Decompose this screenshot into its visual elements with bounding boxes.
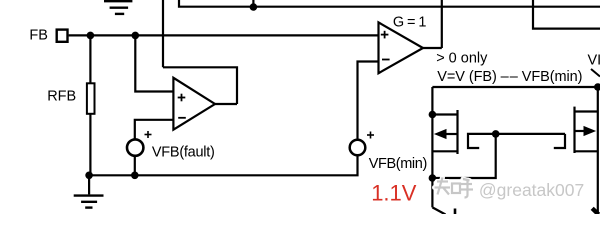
wire RFB top lead bbox=[89, 35, 91, 83]
wire stub to node at top bbox=[252, 0, 254, 7]
transistor Q1 gate bbox=[468, 134, 496, 148]
wire FB net horizontal bbox=[69, 34, 379, 36]
node Q1 drain dot bbox=[429, 111, 437, 119]
node Q1 gate junction dot bbox=[429, 174, 437, 182]
wire U1 plus input bbox=[135, 35, 173, 91]
transistor Q2 top lead bbox=[575, 110, 598, 112]
wire right edge vertical bbox=[597, 87, 599, 214]
transistor Q3 base bar stub (cut off) bbox=[454, 209, 457, 215]
ground (top, stem cut off above) bbox=[104, 1, 132, 14]
op-amp U2 plus sign bbox=[381, 31, 389, 39]
transistor Q1 bottom lead bbox=[432, 150, 457, 152]
node bottom rail dot 2 bbox=[131, 172, 139, 180]
node FB junction dot 2 bbox=[132, 32, 140, 40]
transistor Q2 gate bbox=[554, 134, 565, 148]
wire gate net down and left bbox=[432, 134, 495, 178]
node dot at right edge bbox=[594, 83, 600, 91]
wire top rail bbox=[179, 0, 600, 7]
svg-text:> 0 only: > 0 only bbox=[436, 51, 488, 67]
ground (bottom) bbox=[74, 175, 104, 207]
transistor Q2 arrow lead bbox=[575, 130, 587, 132]
svg-text:VFB(fault): VFB(fault) bbox=[152, 144, 215, 160]
wire difference output line bbox=[432, 86, 597, 88]
pad FB terminal bbox=[57, 30, 68, 42]
transistor Q2 arrowhead bbox=[584, 126, 597, 136]
transistor Q1 channel bar bbox=[456, 110, 458, 154]
svg-text:RFB: RFB bbox=[47, 89, 76, 105]
op-amp U2 minus sign bbox=[382, 59, 390, 61]
transistor Q2 bottom lead bbox=[575, 150, 598, 152]
node junction dot on top rail bbox=[250, 3, 258, 11]
transistor Q4 arrow blob (cut off, bottom right) bbox=[592, 208, 598, 214]
svg-text:VFB(min): VFB(min) bbox=[369, 156, 428, 172]
resistor RFB bbox=[87, 83, 95, 114]
wire VFB(min) top lead to U2 minus input bbox=[358, 62, 379, 140]
wire U2 output to riser bbox=[423, 47, 442, 49]
op-amp U1 bbox=[173, 78, 215, 130]
svg-text:1.1V: 1.1V bbox=[371, 181, 417, 206]
transistor Q1 top lead bbox=[432, 113, 457, 115]
source VFB(min) plus sign bbox=[367, 132, 374, 139]
wire left wire of Q1 bbox=[431, 87, 433, 207]
node FB junction dot 1 bbox=[87, 32, 95, 40]
voltage source VFB(min) bbox=[350, 140, 366, 156]
wire gate net to Q2 bbox=[496, 133, 565, 135]
svg-text:FB: FB bbox=[29, 28, 48, 44]
svg-text:G = 1: G = 1 bbox=[393, 15, 427, 31]
node bottom rail dot 1 bbox=[85, 172, 93, 180]
op-amp U1 plus sign bbox=[178, 94, 186, 102]
transistor Q1 arrowhead bbox=[434, 129, 447, 139]
transistor Q3 collector diagonal (cut off) bbox=[432, 207, 445, 214]
node gate net junction dot bbox=[492, 130, 500, 138]
wire bottom rail bbox=[89, 156, 357, 176]
source VFB(fault) plus sign bbox=[145, 131, 152, 138]
wire VFB(fault) bottom lead bbox=[134, 156, 136, 175]
svg-text:@greatak007: @greatak007 bbox=[479, 180, 584, 200]
wire branch at x533 bbox=[533, 0, 600, 29]
leader line for VI label bbox=[591, 69, 600, 77]
svg-text:VI: VI bbox=[588, 52, 600, 68]
wire op-amp U1 output riser to top bbox=[162, 0, 164, 67]
watermark zhihu glyphs bbox=[435, 178, 474, 198]
svg-text:V=V (FB) – – VFB(min): V=V (FB) – – VFB(min) bbox=[437, 69, 582, 85]
transistor Q1 arrow lead bbox=[444, 133, 458, 135]
wire riser crossing top rail bbox=[441, 0, 443, 48]
wire U1 minus input bbox=[135, 120, 174, 140]
op-amp U2 (G=1 buffer) bbox=[379, 22, 424, 73]
op-amp U1 minus sign bbox=[178, 117, 186, 119]
wire U1 feedback loop top bbox=[163, 67, 237, 104]
transistor Q2 channel bar bbox=[573, 107, 575, 153]
wire U1 output bbox=[215, 103, 237, 105]
voltage source VFB(fault) bbox=[127, 139, 143, 155]
wire RFB bottom lead bbox=[89, 114, 91, 176]
